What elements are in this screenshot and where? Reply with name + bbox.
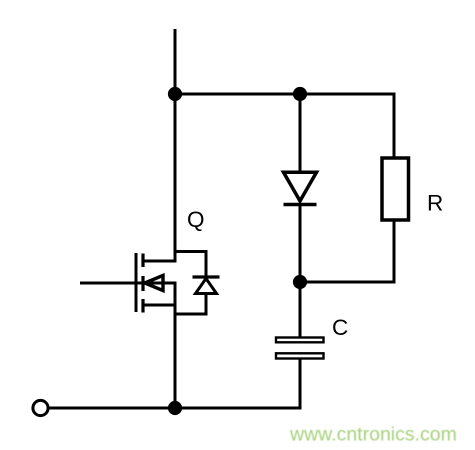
source connection wire — [143, 304, 177, 307]
svg-text:C: C — [332, 315, 348, 340]
wire: body-diode top branch — [175, 252, 206, 278]
body diode triangle — [196, 279, 217, 294]
wire: resistor bottom lead — [393, 220, 396, 284]
svg-text:www.cntronics.com: www.cntronics.com — [289, 424, 457, 446]
body-source tie wire — [174, 283, 177, 305]
wire: body-diode bottom branch — [175, 294, 206, 315]
junction: top rail / drain node — [169, 88, 180, 99]
svg-text:Q: Q — [187, 207, 205, 232]
channel segment: source — [141, 299, 144, 313]
diode D — [284, 172, 317, 204]
gate lead wire — [80, 282, 143, 285]
junction: diode / resistor / capacitor node — [294, 276, 305, 287]
wire: drain vertical — [174, 94, 177, 261]
body diode of Q — [175, 252, 220, 315]
junction: source / bottom rail — [169, 402, 180, 413]
wire: capacitor bottom lead — [299, 359, 302, 410]
gate bar — [135, 253, 138, 312]
wire: bottom rail — [48, 407, 302, 410]
wire: resistor top lead — [393, 94, 396, 158]
wire: bottom-right rail — [299, 281, 396, 284]
body diode cathode bar — [193, 275, 220, 278]
wire: source vertical — [174, 305, 177, 408]
svg-text:R: R — [427, 191, 443, 216]
terminal: input port circle — [33, 400, 48, 415]
capacitor C — [276, 338, 324, 359]
wire: diode anode lead — [299, 94, 302, 173]
drain connection wire — [143, 260, 177, 263]
wire: top supply lead — [174, 29, 177, 94]
channel segment: drain — [141, 254, 144, 268]
wire: capacitor top lead — [299, 282, 302, 337]
wire: diode cathode lead — [299, 205, 302, 283]
wire: top rail — [175, 93, 396, 96]
resistor R — [382, 158, 409, 220]
body connection wire with arrowhead — [143, 282, 177, 285]
transistor Q (N-channel MOSFET) — [80, 253, 177, 313]
channel segment: body — [141, 276, 144, 291]
junction: top rail / diode branch — [294, 88, 305, 99]
